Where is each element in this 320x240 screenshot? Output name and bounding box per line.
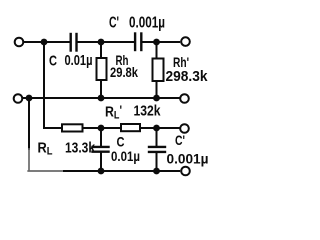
node K [153,168,160,175]
wire resistor Rh to node E [100,80,102,98]
node G [26,95,33,102]
terminal T1 (top-left input) [15,38,24,47]
wire T1 to node A [24,41,44,43]
svg-text:C': C' [175,132,185,148]
terminal T6 (bottom-right) [181,167,190,176]
wire node A to capacitor C [44,41,70,43]
svg-text:0.001µ: 0.001µ [129,15,165,32]
node I [153,125,160,132]
wire bottom rail [64,170,179,172]
node B [98,39,105,46]
capacitor C' (bottom, 0.001µ) [149,147,165,152]
svg-text:0.001µ: 0.001µ [167,151,209,167]
node H [98,125,105,132]
terminal T5 (right, RL rail) [180,124,189,133]
resistor Rh 29.8k [97,58,107,80]
svg-text:13.3k: 13.3k [65,140,96,157]
wire node A down to RL rail [43,42,45,128]
node A [41,39,48,46]
wire node H down to capacitor C (bottom) [100,128,102,146]
wire node D down to resistor Rh' [156,42,158,59]
svg-text:0.01µ: 0.01µ [111,148,140,164]
terminal T4 (middle-right) [180,94,189,103]
wire node B to capacitor C' [101,41,134,43]
svg-text:132k: 132k [134,103,162,120]
resistor RL 13.3k [62,124,83,131]
svg-text:RL': RL' [105,103,122,122]
wire node H to resistor RL' [101,127,121,129]
wire resistor RL' to node I [140,127,157,129]
svg-text:0.01µ: 0.01µ [65,52,93,69]
terminal T3 (top-right output) [181,37,190,46]
wire capacitor C bottom to node J [100,153,102,171]
wire capacitor C to node B [78,41,101,43]
terminal T2 (middle-left) [14,94,23,103]
capacitor C (bottom, 0.01µ) [93,147,109,152]
node D [153,39,160,46]
wire bottom rail (faded left portion) [28,170,64,172]
capacitor C (top, 0.01µ) [71,34,77,51]
svg-text:298.3k: 298.3k [166,68,209,85]
capacitor C' (top, 0.001µ) [135,34,141,51]
svg-text:29.8k: 29.8k [110,64,138,80]
wire node I down to capacitor C' (bottom) [156,128,158,146]
wire node B down to resistor Rh [100,42,102,58]
wire capacitor C' to node D [143,41,157,43]
svg-text:C: C [49,53,57,70]
wire node G down to bottom rail [28,98,30,149]
wire resistor Rh' to node F [156,81,158,98]
wire node D to terminal T3 [157,41,180,43]
svg-text:C': C' [109,15,119,32]
wire capacitor C' bottom to node K [156,153,158,171]
node E [98,95,105,102]
resistor RL' 132k [121,124,140,131]
resistor Rh' 298.3k [153,59,164,82]
wire RL rail corner to resistor RL [44,127,62,129]
node F [153,95,160,102]
wire resistor RL to node H [83,127,102,129]
node J [98,168,105,175]
wire node G down to bottom rail (faded scan portion) [28,149,30,170]
wire middle rail T2 to T4 [24,97,179,99]
wire node I to terminal T5 [157,127,180,129]
